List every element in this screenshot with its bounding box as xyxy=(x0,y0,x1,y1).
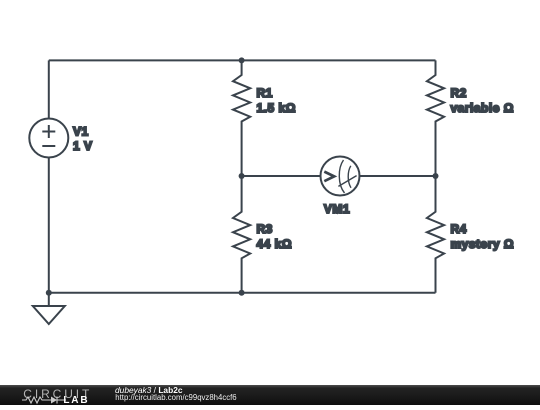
resistor R2 xyxy=(427,60,444,176)
wire top rail xyxy=(49,59,436,61)
resistor R3 xyxy=(233,176,250,293)
node junction R3 bottom xyxy=(239,290,245,296)
wire bottom rail xyxy=(49,292,436,294)
node junction R2/R4/VM right xyxy=(433,173,439,179)
wire left lower segment xyxy=(48,158,50,293)
ground xyxy=(33,293,65,324)
node junction ground xyxy=(46,290,52,296)
node junction R1/R3/VM left xyxy=(239,173,245,179)
svg-text:R2: R2 xyxy=(451,86,467,100)
logo LAB word xyxy=(63,396,89,406)
wire middle left segment xyxy=(242,175,321,177)
svg-text:V1: V1 xyxy=(73,125,89,139)
svg-text:R4: R4 xyxy=(451,222,467,236)
resistor R4 xyxy=(427,176,444,293)
resistor R1 xyxy=(233,60,250,176)
footer url text xyxy=(115,393,236,402)
svg-text:variable Ω: variable Ω xyxy=(451,101,514,115)
logo resistor-diode squiggle xyxy=(22,395,66,405)
node junction R1 top xyxy=(239,57,245,63)
voltmeter VM1 xyxy=(321,157,360,196)
wire middle right segment xyxy=(360,175,436,177)
svg-text:VM1: VM1 xyxy=(324,202,350,216)
svg-text:R1: R1 xyxy=(257,86,273,100)
svg-text:1 V: 1 V xyxy=(73,139,93,153)
svg-text:mystery Ω: mystery Ω xyxy=(451,237,515,251)
wire left upper segment xyxy=(48,60,50,118)
footer title text xyxy=(115,385,183,395)
logo CIRCUIT word xyxy=(23,388,92,400)
svg-text:R3: R3 xyxy=(257,222,273,236)
svg-text:44 kΩ: 44 kΩ xyxy=(257,237,292,251)
footer bar xyxy=(0,385,540,406)
voltage source V1 xyxy=(29,119,68,158)
svg-text:1.5 kΩ: 1.5 kΩ xyxy=(257,101,296,115)
